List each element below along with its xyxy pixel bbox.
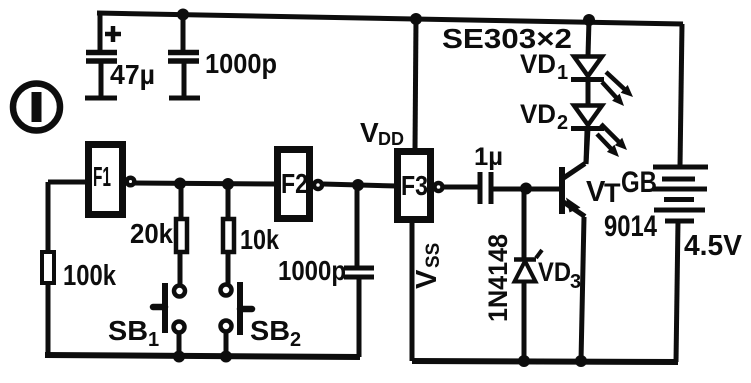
svg-text:1: 1 (148, 329, 159, 351)
svg-text:1000p: 1000p (205, 48, 277, 79)
wire: VDD top rail (97, 13, 683, 24)
label: VD1 (520, 49, 568, 84)
capacitor C3 1000p bottom (344, 268, 374, 357)
svg-text:100k: 100k (63, 260, 117, 292)
node: F1 out / R3 junction (222, 178, 234, 190)
svg-text:DD: DD (378, 129, 404, 149)
wire: battery to bottom rail (676, 221, 678, 362)
resistor R2 20k (176, 219, 187, 252)
svg-text:F2: F2 (281, 168, 308, 199)
capacitor C1 47u electrolytic (85, 13, 117, 98)
wire: input to F1 (48, 180, 88, 185)
wire: SB1 to bottom rail (177, 333, 182, 357)
svg-text:F1: F1 (93, 161, 111, 192)
svg-text:9014: 9014 (604, 210, 657, 243)
node: F2 out / C3 junction (352, 179, 364, 191)
gate F3 (398, 152, 443, 220)
battery GB (653, 167, 708, 221)
wire: VDD drop to F3 (415, 19, 416, 150)
pushbutton SB2 (221, 282, 253, 335)
svg-text:T: T (604, 178, 621, 208)
label: VD3 (538, 257, 581, 293)
label: C1 polarity + (105, 26, 121, 42)
gate F1 (89, 145, 135, 215)
wire: junction to C3 (355, 185, 360, 267)
LED VD2 light arrows (597, 124, 627, 157)
label: SB2 (250, 315, 301, 351)
wire: SB2 to bottom rail (224, 332, 229, 357)
diode VD3 (514, 250, 542, 282)
svg-text:4.5V: 4.5V (684, 230, 743, 262)
svg-text:20k: 20k (130, 218, 173, 249)
svg-text:1N4148: 1N4148 (483, 234, 513, 322)
node: SB1 bottom junction (173, 351, 185, 363)
capacitor C4 1u (480, 172, 491, 204)
svg-text:1µ: 1µ (474, 143, 503, 171)
svg-text:VD: VD (520, 49, 556, 79)
svg-text:SB: SB (108, 315, 148, 346)
svg-text:SS: SS (423, 243, 444, 268)
wire: left rail down (46, 182, 51, 355)
wire: junction to R2 (179, 184, 184, 218)
node: top rail / C2 junction (177, 9, 189, 21)
wire: junction down to VD3 (522, 188, 527, 259)
svg-text:2: 2 (290, 329, 301, 351)
svg-text:V: V (411, 269, 443, 289)
wire: F1 output to F2 input (134, 183, 277, 184)
svg-text:V: V (360, 117, 379, 148)
wire: F2 output to F3 input (323, 184, 397, 186)
wire: VSS drop from F3 (410, 222, 415, 361)
wire: R3 to SB2 (226, 252, 231, 284)
label: SB1 (108, 315, 159, 351)
figure number badge (1) (13, 84, 60, 131)
gate F2 (278, 150, 323, 219)
wire: bottom-left rail (45, 355, 360, 357)
LED VD2 (571, 106, 604, 129)
svg-text:1000p: 1000p (278, 255, 346, 286)
svg-text:1: 1 (557, 62, 568, 84)
svg-text:VD: VD (538, 257, 571, 287)
wire: F3 output to C4 (443, 185, 478, 190)
node: top rail / VDD junction (410, 13, 422, 25)
transistor VT 9014 (562, 164, 585, 217)
wire: VD2 to collector (586, 128, 588, 164)
wire: top rail to VD1 (588, 20, 589, 56)
LED VD1 (571, 57, 604, 80)
svg-text:SB: SB (250, 315, 290, 346)
resistor R3 10k (223, 219, 234, 252)
label: VT (586, 176, 621, 208)
label: net VDD (360, 117, 404, 149)
wire: emitter to bottom rail (581, 217, 584, 361)
node: F1 out / R2 junction (174, 178, 186, 190)
svg-text:F3: F3 (401, 170, 428, 201)
node: emitter bottom junction (575, 355, 587, 367)
wire: VD1 to VD2 (586, 79, 591, 105)
wire: R2 to SB1 (178, 252, 183, 285)
node: VD3 bottom junction (518, 355, 530, 367)
node: base / VD3 junction (520, 183, 532, 195)
wire: top rail to battery (680, 24, 682, 167)
node: SB2 bottom junction (220, 351, 232, 363)
svg-text:GB: GB (621, 166, 657, 199)
LED VD1 light arrows (602, 72, 633, 106)
pushbutton SB1 (153, 283, 185, 333)
svg-text:VD: VD (520, 99, 556, 129)
resistor R1 100k (42, 252, 54, 283)
svg-text:3: 3 (570, 271, 581, 293)
label: VD2 (520, 99, 568, 134)
label: net VSS (411, 243, 444, 289)
svg-text:10k: 10k (240, 224, 279, 255)
svg-text:2: 2 (557, 112, 568, 134)
wire: collector up to VD2 (586, 130, 587, 164)
wire: junction to R3 (226, 184, 231, 218)
svg-text:V: V (586, 176, 606, 208)
wire: bottom-right rail (412, 361, 678, 362)
node: top rail / LED chain junction (583, 14, 595, 26)
wire: C4 to base node (491, 187, 561, 192)
svg-text:47µ: 47µ (110, 59, 155, 90)
capacitor C2 1000p top (168, 14, 200, 98)
wire: VD3 to bottom rail (522, 281, 527, 361)
